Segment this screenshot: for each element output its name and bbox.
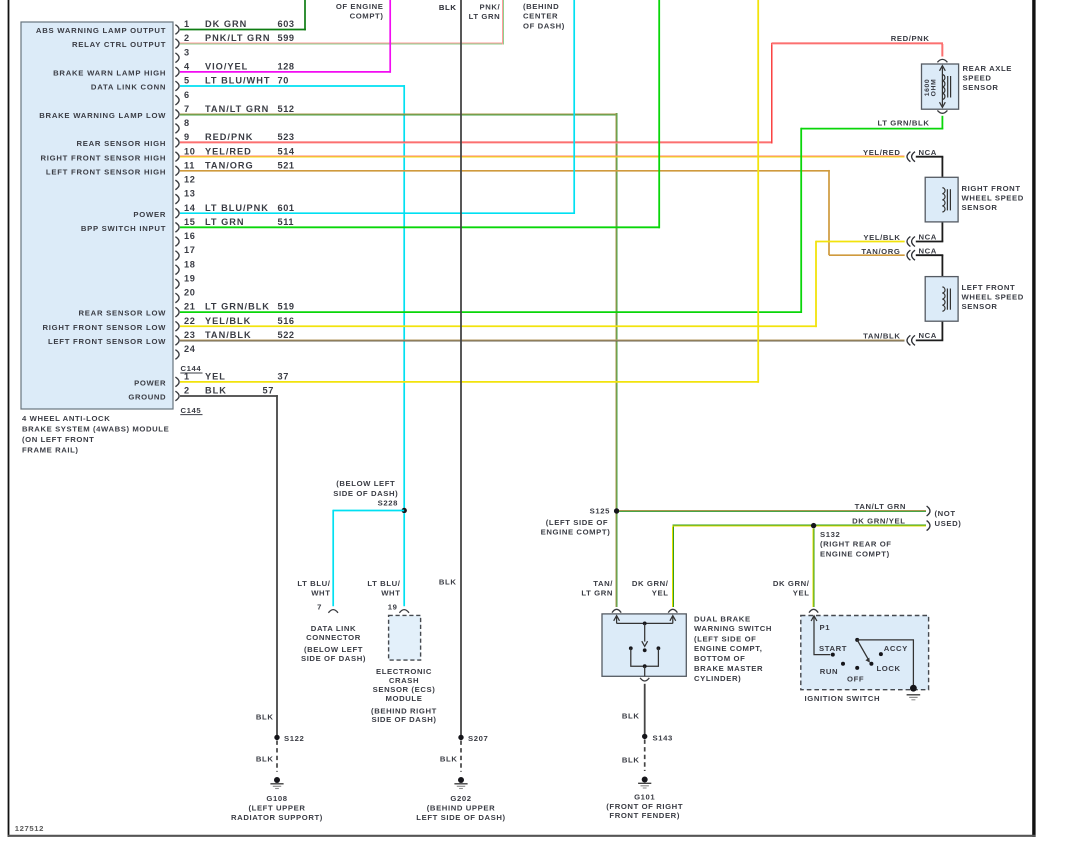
splice S228 — [402, 508, 407, 513]
wire BLK vertical down to S122 — [276, 395, 278, 735]
svg-text:23: 23 — [184, 330, 195, 340]
svg-text:21: 21 — [184, 302, 195, 312]
svg-text:YEL/BLK: YEL/BLK — [205, 316, 251, 326]
dual brake warning switch box — [602, 614, 686, 676]
svg-text:S122: S122 — [284, 734, 304, 743]
svg-text:ENGINE COMPT,: ENGINE COMPT, — [694, 644, 762, 653]
module pin 2 PNK/LT GRN 599 — [175, 39, 179, 49]
switch internal right contact — [657, 646, 661, 650]
svg-text:S228: S228 — [378, 498, 398, 507]
svg-text:2: 2 — [184, 33, 190, 43]
wire LT BLU/WHT down from S228 to ECS module — [403, 513, 405, 606]
svg-text:LEFT FRONT SENSOR HIGH: LEFT FRONT SENSOR HIGH — [46, 167, 166, 176]
ignition contact LOCK — [869, 662, 873, 666]
module pin 21 LT GRN/BLK 519 — [175, 307, 179, 317]
svg-text:DK GRN/: DK GRN/ — [632, 579, 669, 588]
wire TAN/LT GRN branch S125 to NOT USED — [619, 510, 926, 512]
svg-text:ENGINE COMPT): ENGINE COMPT) — [541, 528, 611, 537]
svg-text:37: 37 — [278, 372, 289, 382]
wire DK GRN/YEL down from S132 to ignition switch — [812, 528, 814, 607]
svg-text:1: 1 — [184, 372, 190, 382]
svg-text:RADIATOR SUPPORT): RADIATOR SUPPORT) — [231, 813, 323, 822]
svg-text:1: 1 — [184, 19, 190, 29]
switch internal center junction — [643, 622, 647, 626]
svg-text:10: 10 — [184, 146, 195, 156]
svg-text:NCA: NCA — [919, 331, 937, 340]
wire DK GRN/YEL down to dual brake warning switch — [671, 527, 673, 607]
module U1 4WABS box — [21, 22, 173, 409]
svg-text:NCA: NCA — [919, 233, 937, 242]
right front wheel speed sensor box — [925, 177, 958, 222]
svg-text:127512: 127512 — [15, 824, 44, 833]
svg-text:(RIGHT REAR OF: (RIGHT REAR OF — [820, 540, 892, 549]
svg-text:(BELOW LEFT: (BELOW LEFT — [336, 479, 395, 488]
svg-text:512: 512 — [278, 104, 295, 114]
wire pin14 LT BLU/PNK 601 horizontal — [180, 212, 575, 214]
svg-text:REAR AXLE: REAR AXLE — [963, 64, 1013, 73]
ignition feed to ground — [857, 640, 913, 685]
svg-text:601: 601 — [278, 203, 295, 213]
switch pin arch DK GRN/YEL — [668, 609, 677, 612]
wire pin22 YEL/BLK 516 horizontal — [180, 325, 817, 327]
wire pin1 DK GRN 603 vertical to top — [304, 0, 306, 30]
svg-text:(BEHIND RIGHT: (BEHIND RIGHT — [371, 706, 437, 715]
svg-text:15: 15 — [184, 217, 195, 227]
svg-text:(NOT: (NOT — [935, 509, 956, 518]
svg-text:ACCY: ACCY — [884, 644, 908, 653]
svg-text:BLK: BLK — [439, 577, 457, 586]
switch internal output junction — [643, 664, 647, 668]
switch internal moving contact arrow — [644, 623, 646, 641]
svg-text:19: 19 — [388, 602, 398, 611]
svg-text:DUAL BRAKE: DUAL BRAKE — [694, 614, 751, 623]
svg-text:DK GRN: DK GRN — [205, 19, 247, 29]
svg-text:SENSOR: SENSOR — [963, 83, 999, 92]
ECS module box — [389, 615, 421, 660]
left front sensor coil — [942, 287, 945, 311]
wire pin4 VIO/YEL 128 vertical to top — [389, 0, 391, 73]
splice S122 — [274, 735, 279, 740]
wire YEL/BLK horizontal to NCA — [816, 241, 905, 243]
svg-text:REAR SENSOR LOW: REAR SENSOR LOW — [78, 309, 166, 318]
wire pin9 RED/PNK 523 horizontal — [180, 141, 773, 143]
svg-text:WHT: WHT — [381, 588, 400, 597]
svg-text:CYLINDER): CYLINDER) — [694, 674, 741, 683]
svg-text:57: 57 — [263, 386, 274, 396]
ignition ground — [910, 685, 917, 692]
svg-text:S125: S125 — [590, 507, 610, 516]
svg-text:(BEHIND UPPER: (BEHIND UPPER — [427, 803, 495, 812]
switch internal output lead — [644, 666, 646, 676]
svg-text:TAN/: TAN/ — [593, 579, 613, 588]
wire pin5 LT BLU/WHT 70 horizontal — [180, 85, 405, 87]
svg-text:SENSOR: SENSOR — [962, 302, 998, 311]
module pin 9 RED/PNK 523 — [175, 138, 179, 148]
svg-text:20: 20 — [184, 288, 195, 298]
wire DK GRN/YEL horizontal S132 to NOT USED — [672, 524, 926, 526]
svg-text:BLK: BLK — [439, 3, 457, 12]
module pin 22 YEL/BLK 516 — [175, 321, 179, 331]
svg-text:LEFT FRONT SENSOR LOW: LEFT FRONT SENSOR LOW — [48, 337, 166, 346]
wire BLK NCA to right front sensor bottom — [916, 241, 944, 243]
wire pin11 TAN/ORG 521 horizontal — [180, 170, 830, 172]
splice S125 — [614, 508, 619, 513]
rear axle sensor core — [947, 76, 949, 98]
svg-text:BLK: BLK — [622, 755, 640, 764]
wire BLK dashed S207 to G202 — [460, 741, 462, 772]
svg-text:FRONT FENDER): FRONT FENDER) — [609, 811, 680, 820]
ECS module arch pin 19 — [399, 610, 409, 613]
svg-text:6: 6 — [184, 90, 190, 100]
svg-text:C145: C145 — [181, 406, 202, 415]
ignition contact OFF — [855, 666, 859, 670]
wire BLK NCA to left front sensor bottom — [916, 339, 944, 341]
svg-text:BLK: BLK — [256, 712, 274, 721]
right front sensor coil — [942, 188, 945, 212]
svg-text:WHT: WHT — [311, 588, 330, 597]
switch pin arch TAN/LT GRN — [612, 609, 621, 612]
page bottom border — [8, 835, 1036, 837]
svg-text:DK GRN/YEL: DK GRN/YEL — [852, 516, 905, 525]
svg-text:BRAKE MASTER: BRAKE MASTER — [694, 664, 763, 673]
svg-text:CONNECTOR: CONNECTOR — [306, 633, 361, 642]
wire YEL vertical to top — [757, 0, 759, 383]
svg-text:ELECTRONIC: ELECTRONIC — [376, 667, 432, 676]
svg-text:MODULE: MODULE — [386, 694, 423, 703]
svg-text:18: 18 — [184, 259, 195, 269]
svg-text:(ON LEFT FRONT: (ON LEFT FRONT — [22, 435, 94, 444]
wire pin21 LT GRN/BLK vertical up — [800, 128, 802, 313]
svg-text:SIDE OF DASH): SIDE OF DASH) — [301, 654, 366, 663]
svg-text:516: 516 — [278, 316, 295, 326]
right front sensor core — [946, 189, 948, 210]
svg-text:9: 9 — [184, 132, 190, 142]
svg-text:TAN/LT GRN: TAN/LT GRN — [855, 502, 906, 511]
connector arc DK GRN/YEL NOT USED — [927, 521, 930, 531]
svg-text:BLK: BLK — [622, 712, 640, 721]
module pin 1 DK GRN 603 — [175, 25, 179, 35]
wire LT BLU/WHT branch left from S228 — [333, 510, 404, 512]
wire LT BLU/WHT down to data link connector — [332, 510, 334, 607]
switch internal pole dot — [643, 648, 647, 652]
ground G108 — [274, 777, 280, 783]
connector arc TAN/LT GRN NOT USED — [927, 506, 930, 516]
svg-text:ABS WARNING LAMP OUTPUT: ABS WARNING LAMP OUTPUT — [36, 26, 166, 35]
wire BLK dashed S143 to G101 — [644, 740, 646, 772]
svg-text:LEFT SIDE OF DASH): LEFT SIDE OF DASH) — [416, 813, 505, 822]
switch internal arrow left — [616, 617, 618, 623]
svg-text:RIGHT FRONT SENSOR LOW: RIGHT FRONT SENSOR LOW — [42, 323, 166, 332]
wire LT GRN/BLK horizontal to rear axle sensor — [801, 128, 943, 130]
wire pin10 YEL/RED 514 horizontal — [180, 155, 905, 157]
module pin 6 — [175, 95, 179, 105]
svg-text:DATA LINK: DATA LINK — [311, 624, 356, 633]
svg-text:S143: S143 — [653, 733, 673, 742]
wire pin14 LT BLU/PNK vertical to top — [573, 0, 575, 214]
svg-text:511: 511 — [278, 217, 295, 227]
module pin 1 YEL 37 (C144) — [175, 377, 179, 387]
ignition rotor pivot — [855, 638, 859, 642]
module pin 8 — [175, 124, 179, 134]
svg-text:CRASH: CRASH — [389, 676, 419, 685]
ignition rotor wiper arm — [857, 640, 868, 659]
svg-text:13: 13 — [184, 189, 195, 199]
wire BLK NCA to right front sensor — [916, 156, 944, 158]
ground G101 — [642, 777, 648, 783]
svg-text:OF ENGINE: OF ENGINE — [336, 2, 384, 11]
svg-text:YEL/RED: YEL/RED — [863, 148, 901, 157]
svg-text:RIGHT FRONT SENSOR HIGH: RIGHT FRONT SENSOR HIGH — [40, 153, 166, 162]
svg-text:4: 4 — [184, 61, 190, 71]
wire pin23 TAN/BLK 522 horizontal to NCA — [180, 339, 905, 341]
svg-text:2: 2 — [184, 386, 190, 396]
wire pin1 DK GRN 603 horizontal — [180, 29, 306, 31]
svg-text:(FRONT OF RIGHT: (FRONT OF RIGHT — [606, 802, 683, 811]
svg-text:RELAY CTRL OUTPUT: RELAY CTRL OUTPUT — [72, 40, 166, 49]
module pin 20 — [175, 293, 179, 303]
svg-text:22: 22 — [184, 316, 195, 326]
svg-text:WHEEL SPEED: WHEEL SPEED — [962, 193, 1024, 202]
page left border — [8, 0, 10, 837]
svg-text:TAN/ORG: TAN/ORG — [861, 247, 900, 256]
module pin 7 TAN/LT GRN 512 — [175, 109, 179, 119]
module pin 3 — [175, 53, 179, 63]
wire pin4 VIO/YEL 128 horizontal — [180, 71, 391, 73]
svg-text:WARNING SWITCH: WARNING SWITCH — [694, 624, 772, 633]
svg-text:G101: G101 — [634, 792, 655, 801]
module pin 5 LT BLU/WHT 70 — [175, 81, 179, 91]
wire pin7 TAN/LT GRN 512 vertical down to S125 and dual brake switch — [615, 113, 617, 607]
svg-text:LT GRN: LT GRN — [581, 589, 613, 598]
svg-text:BLK: BLK — [256, 755, 274, 764]
svg-text:POWER: POWER — [134, 379, 166, 388]
svg-text:603: 603 — [278, 19, 295, 29]
svg-text:SENSOR (ECS): SENSOR (ECS) — [373, 685, 436, 694]
svg-text:14: 14 — [184, 203, 196, 213]
svg-text:RIGHT FRONT: RIGHT FRONT — [962, 184, 1021, 193]
svg-text:POWER: POWER — [133, 210, 166, 219]
wire pin22 YEL/BLK vertical up — [815, 241, 817, 327]
svg-text:BLK: BLK — [440, 755, 458, 764]
svg-text:VIO/YEL: VIO/YEL — [205, 61, 248, 71]
wire pin9 RED/PNK 523 vertical up — [771, 43, 773, 143]
rear axle sensor bottom arch — [937, 110, 947, 113]
ignition switch box — [801, 616, 929, 690]
module pin 4 VIO/YEL 128 — [175, 67, 179, 77]
svg-text:8: 8 — [184, 118, 190, 128]
wire pin2 PNK/LT GRN 599 horizontal — [180, 42, 504, 44]
svg-text:522: 522 — [278, 330, 295, 340]
ignition contact START — [831, 653, 835, 657]
left front sensor core — [946, 289, 948, 310]
svg-text:16: 16 — [184, 231, 195, 241]
svg-text:COMPT): COMPT) — [350, 12, 384, 21]
wire C144 pin1 YEL 37 horizontal — [180, 381, 759, 383]
wire RED/PNK drop into rear axle sensor — [941, 44, 943, 57]
svg-text:SIDE OF DASH): SIDE OF DASH) — [333, 489, 398, 498]
ignition P1 arrow and feed line — [814, 617, 830, 654]
svg-text:LT BLU/PNK: LT BLU/PNK — [205, 203, 269, 213]
module pin 23 TAN/BLK 522 — [175, 336, 179, 346]
rear axle sensor winding arrow — [941, 67, 943, 106]
page right border — [1032, 0, 1035, 837]
svg-text:SENSOR: SENSOR — [962, 203, 998, 212]
svg-text:GROUND: GROUND — [128, 393, 166, 402]
inline connector TAN/ORG NCA — [907, 250, 910, 260]
svg-text:REAR SENSOR HIGH: REAR SENSOR HIGH — [76, 139, 166, 148]
ground G202 — [458, 777, 464, 783]
switch internal U link — [631, 648, 659, 666]
svg-text:4 WHEEL ANTI-LOCK: 4 WHEEL ANTI-LOCK — [22, 414, 110, 423]
module pin 18 — [175, 265, 179, 275]
wire BLK switch to S143 — [644, 684, 646, 734]
svg-text:S132: S132 — [820, 530, 840, 539]
svg-text:BLK: BLK — [205, 386, 227, 396]
inline connector YEL/BLK NCA — [907, 237, 910, 247]
svg-text:NCA: NCA — [919, 246, 937, 255]
switch internal bus — [617, 622, 673, 624]
svg-text:70: 70 — [278, 76, 289, 86]
module pin 10 YEL/RED 514 — [175, 152, 179, 162]
svg-text:OHM: OHM — [931, 79, 938, 97]
svg-text:YEL: YEL — [793, 589, 810, 598]
splice S143 — [642, 734, 647, 739]
svg-text:OF DASH): OF DASH) — [523, 21, 565, 30]
svg-text:RUN: RUN — [820, 667, 838, 676]
svg-text:YEL: YEL — [205, 372, 226, 382]
svg-text:G202: G202 — [450, 794, 471, 803]
wire pin7 TAN/LT GRN 512 horizontal — [180, 113, 617, 115]
wire RED/PNK top horizontal to rear axle sensor — [772, 42, 944, 44]
rear axle speed sensor box — [922, 64, 959, 109]
wire pin5 LT BLU/WHT 70 vertical down to S228 — [403, 85, 405, 510]
module pin 13 — [175, 194, 179, 204]
svg-text:7: 7 — [184, 104, 190, 114]
svg-text:YEL/RED: YEL/RED — [205, 146, 252, 156]
svg-text:FRAME RAIL): FRAME RAIL) — [22, 445, 79, 454]
svg-text:(LEFT SIDE OF: (LEFT SIDE OF — [546, 518, 608, 527]
ignition contact ACCY — [879, 652, 883, 656]
svg-text:LT BLU/WHT: LT BLU/WHT — [205, 76, 270, 86]
svg-text:PNK/: PNK/ — [480, 2, 501, 11]
svg-text:NCA: NCA — [919, 148, 937, 157]
wire LT GRN/BLK rise from rear axle sensor — [941, 116, 943, 130]
wire pin21 LT GRN/BLK 519 horizontal — [180, 311, 802, 313]
svg-text:24: 24 — [184, 344, 196, 354]
svg-text:LEFT FRONT: LEFT FRONT — [962, 283, 1016, 292]
svg-text:USED): USED) — [935, 519, 962, 528]
wire BLK dashed S122 to G108 — [276, 741, 278, 772]
svg-text:TAN/BLK: TAN/BLK — [863, 331, 900, 340]
svg-text:BPP SWITCH INPUT: BPP SWITCH INPUT — [81, 224, 166, 233]
svg-text:523: 523 — [278, 132, 295, 142]
svg-text:519: 519 — [278, 302, 295, 312]
svg-text:(BEHIND: (BEHIND — [523, 2, 559, 11]
svg-text:TAN/LT GRN: TAN/LT GRN — [205, 104, 269, 114]
svg-text:599: 599 — [278, 33, 295, 43]
svg-text:7: 7 — [317, 602, 322, 611]
wire pin11 TAN/ORG vertical — [828, 170, 830, 255]
svg-text:BOTTOM OF: BOTTOM OF — [694, 654, 745, 663]
svg-text:G108: G108 — [266, 794, 287, 803]
module pin 15 LT GRN 511 — [175, 223, 179, 233]
switch internal arrow right — [672, 617, 674, 623]
svg-text:RED/PNK: RED/PNK — [891, 34, 930, 43]
svg-text:RED/PNK: RED/PNK — [205, 132, 253, 142]
svg-text:19: 19 — [184, 273, 195, 283]
wire BLK NCA to left front sensor — [916, 254, 944, 256]
svg-text:YEL/BLK: YEL/BLK — [863, 233, 900, 242]
inline connector TAN/BLK NCA — [907, 335, 910, 345]
svg-text:YEL: YEL — [652, 589, 669, 598]
rear axle sensor coil — [942, 75, 945, 100]
svg-text:TAN/BLK: TAN/BLK — [205, 330, 252, 340]
wire C145 pin2 BLK 57 horizontal — [180, 395, 278, 397]
module pin 19 — [175, 279, 179, 289]
svg-text:128: 128 — [278, 61, 295, 71]
ignition pin arch P1 — [809, 609, 818, 612]
module pin 24 — [175, 350, 179, 360]
svg-text:START: START — [819, 644, 847, 653]
svg-text:LT GRN: LT GRN — [469, 12, 501, 21]
wire pin15 LT GRN 511 horizontal — [180, 226, 660, 228]
svg-text:LT GRN/BLK: LT GRN/BLK — [205, 302, 270, 312]
switch output arch — [640, 678, 649, 681]
svg-text:LT GRN/BLK: LT GRN/BLK — [878, 118, 930, 127]
svg-text:SPEED: SPEED — [963, 73, 992, 82]
svg-text:521: 521 — [278, 160, 295, 170]
svg-text:OFF: OFF — [847, 675, 864, 684]
svg-text:IGNITION SWITCH: IGNITION SWITCH — [805, 694, 881, 703]
data link connector arch pin 7 — [328, 610, 338, 613]
svg-text:LT BLU/: LT BLU/ — [367, 579, 400, 588]
svg-text:3: 3 — [184, 47, 190, 57]
svg-text:LT GRN: LT GRN — [205, 217, 245, 227]
rear axle sensor top arch — [937, 59, 947, 62]
svg-text:LOCK: LOCK — [877, 664, 901, 673]
inline connector YEL/RED NCA — [907, 152, 910, 162]
svg-text:11: 11 — [184, 160, 195, 170]
switch internal left contact — [629, 646, 633, 650]
svg-text:12: 12 — [184, 175, 195, 185]
splice S207 — [458, 735, 463, 740]
wire pin2 PNK/LT GRN 599 vertical to top — [502, 0, 504, 45]
svg-text:TAN/ORG: TAN/ORG — [205, 160, 254, 170]
svg-text:BRAKE SYSTEM (4WABS) MODULE: BRAKE SYSTEM (4WABS) MODULE — [22, 424, 169, 433]
svg-text:LT BLU/: LT BLU/ — [297, 579, 330, 588]
module pin 12 — [175, 180, 179, 190]
wire pin15 LT GRN vertical to top — [658, 0, 660, 228]
svg-text:SIDE OF DASH): SIDE OF DASH) — [371, 715, 436, 724]
svg-text:CENTER: CENTER — [523, 12, 558, 21]
module pin 14 LT BLU/PNK 601 — [175, 208, 179, 218]
svg-text:(BELOW LEFT: (BELOW LEFT — [304, 645, 363, 654]
splice S132 — [811, 523, 816, 528]
svg-text:BRAKE WARNING LAMP LOW: BRAKE WARNING LAMP LOW — [39, 111, 166, 120]
svg-text:DATA LINK CONN: DATA LINK CONN — [91, 83, 166, 92]
svg-text:17: 17 — [184, 245, 195, 255]
module pin 17 — [175, 251, 179, 261]
module pin 11 TAN/ORG 521 — [175, 166, 179, 176]
module pin 2 BLK 57 (C145) — [175, 391, 179, 401]
svg-text:P1: P1 — [820, 623, 831, 632]
svg-text:514: 514 — [278, 146, 295, 156]
svg-text:BRAKE WARN LAMP HIGH: BRAKE WARN LAMP HIGH — [53, 68, 166, 77]
svg-text:S207: S207 — [468, 734, 488, 743]
wire BLK from top of page down to S207 — [460, 0, 462, 735]
wire TAN/ORG horizontal to NCA — [829, 254, 905, 256]
left front wheel speed sensor box — [925, 277, 958, 322]
